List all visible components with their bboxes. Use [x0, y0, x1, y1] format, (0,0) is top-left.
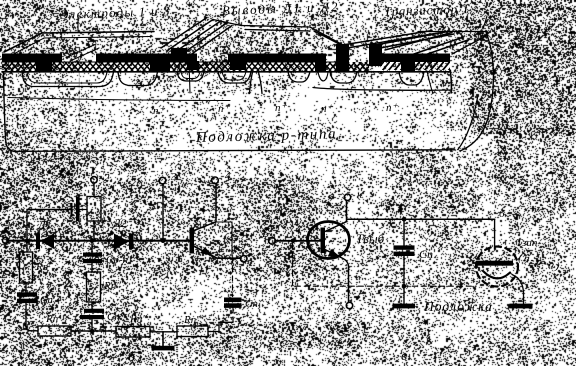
dashed column [232, 258, 234, 297]
stem 3 [162, 184, 164, 239]
capacitor Cp-n plates [83, 253, 102, 264]
ground 3 [510, 304, 533, 309]
svg-text:Подложка p-типа: Подложка p-типа [195, 126, 338, 146]
svg-text:Электроды 1 и 3: Электроды 1 и 3 [60, 3, 171, 22]
junction dot dashed [402, 284, 406, 288]
terminal 7 [346, 302, 352, 308]
peak segment [213, 20, 241, 26]
svg-text:Д2: Д2 [112, 216, 127, 230]
base wire to T2 [275, 240, 322, 242]
well 1 outer [22, 72, 114, 87]
conductor bundle right [343, 31, 469, 59]
well 3 outer [177, 72, 204, 81]
well 5 [288, 72, 310, 83]
black plugs through oxide [36, 55, 415, 72]
main wire [9, 240, 191, 242]
raised electrode [171, 48, 187, 55]
bottom rail left [26, 327, 38, 331]
diode D2 [114, 234, 134, 250]
wire to ground 3 [512, 275, 524, 304]
substrate bottom line [14, 150, 455, 152]
svg-text:Rп′: Rп′ [35, 261, 51, 273]
svg-text:7: 7 [336, 301, 342, 313]
svg-text:Cp-n: Cp-n [106, 254, 129, 266]
terminal B [269, 237, 276, 244]
loop wire to capacitor C1 [27, 210, 71, 241]
substrate left edge [4, 72, 15, 151]
well 4 inner [222, 72, 246, 81]
deep V lines [250, 70, 263, 94]
stem 4 / collector [194, 184, 216, 231]
rail jog to dashed column [208, 322, 233, 331]
svg-text:2: 2 [104, 172, 110, 184]
scan fold artifact line [103, 155, 105, 338]
svg-text:n⁺: n⁺ [153, 105, 166, 117]
transistor T2 base bar [321, 228, 326, 254]
resistor R5 horizontal [116, 327, 150, 338]
svg-text:(п-р-п): (п-р-п) [517, 251, 562, 273]
wire down from 6 [494, 219, 496, 249]
capacitor C2 plates [17, 292, 37, 303]
svg-text:Cп: Cп [419, 247, 433, 261]
svg-text:Выводы Д1 и Д2: Выводы Д1 и Д2 [222, 0, 340, 18]
svg-text:в: в [401, 349, 407, 364]
right face outer edge [460, 32, 493, 151]
terminal 5 [241, 256, 247, 262]
terminal 1 [3, 238, 9, 244]
terminal 4 [212, 177, 219, 184]
diode D1 [36, 234, 54, 250]
leader line 1 [77, 14, 79, 31]
output wire [347, 218, 495, 220]
scan fold artifact line upper [78, 60, 80, 150]
svg-text:Cп: Cп [245, 298, 258, 310]
rail segment [71, 330, 116, 332]
ground 2 [393, 304, 416, 309]
terminal K [344, 194, 350, 200]
transistor T1 base bar [190, 228, 195, 254]
rail segment [150, 331, 177, 333]
leader line 3 [483, 16, 487, 29]
T2 collector [325, 201, 347, 232]
3D roof outline left [4, 32, 154, 53]
right face inner edge [450, 70, 452, 93]
deep boundary left [8, 98, 230, 101]
well 2 [118, 72, 158, 86]
resistor R3 box [20, 252, 33, 283]
svg-text:Rп″: Rп″ [129, 313, 147, 325]
junction node x293 [291, 239, 296, 244]
right shelf [418, 31, 485, 33]
ground 1 [162, 332, 164, 346]
well 4 outer [218, 72, 251, 84]
left column stem [26, 241, 28, 252]
right roof edge [452, 36, 486, 54]
svg-text:n⁺: n⁺ [386, 102, 399, 114]
conductor bundle up-left [161, 18, 232, 57]
surface line [2, 71, 450, 73]
dashed ellipse [476, 247, 518, 287]
svg-text:4: 4 [225, 170, 231, 182]
resistor R2 box [87, 272, 101, 302]
junction node x404 [402, 217, 407, 222]
branch to dashed column [216, 222, 232, 256]
junction node x163 [161, 238, 166, 243]
svg-text:n⁺: n⁺ [218, 103, 231, 115]
deep boundary right [313, 88, 452, 91]
oxide cross hatch band [2, 62, 336, 72]
n+ labels [153, 102, 399, 117]
resistor R1 box [87, 197, 101, 222]
capacitor C3 plates [80, 309, 104, 320]
T2 emitter [325, 250, 349, 303]
capacitor Cn plates [224, 298, 242, 308]
capacitor Cn2 stem [403, 219, 405, 245]
terminal 3 [159, 177, 166, 184]
svg-text:Cп″: Cп″ [107, 311, 125, 323]
rail junction dot [90, 329, 95, 334]
capacitor Cn2 plates [394, 245, 415, 256]
post 1 [336, 44, 349, 72]
hatch band borders [2, 61, 450, 62]
post 2 [369, 44, 382, 66]
vertical contact line [189, 62, 190, 93]
well 7 [330, 72, 357, 84]
svg-text:n⁺: n⁺ [275, 102, 288, 114]
svg-text:n⁺: n⁺ [321, 103, 334, 115]
svg-text:Rп″: Rп″ [103, 280, 121, 292]
resistor R4 horizontal [38, 326, 71, 336]
arc inside ellipse [483, 271, 510, 278]
svg-text:Тзап: Тзап [516, 237, 538, 249]
well 3 inner [181, 72, 200, 79]
capacitor C1 plates [71, 197, 80, 222]
svg-text:Rп‴: Rп‴ [183, 314, 202, 326]
svg-text:Rп′: Rп′ [45, 313, 61, 325]
leader line 2 [238, 16, 240, 25]
plate inside ellipse [477, 261, 514, 266]
svg-text:Б: Б [261, 226, 269, 240]
junction node x27 [25, 238, 30, 243]
middle shelf double line [241, 26, 310, 32]
terminal 2 [91, 177, 97, 183]
electrode bar segments [2, 44, 450, 72]
well 8 right lines [427, 70, 452, 94]
gap pointer lines [66, 44, 99, 61]
transistor T2 circle [308, 222, 350, 259]
svg-text:3: 3 [170, 171, 177, 183]
svg-text:Д1: Д1 [37, 218, 52, 232]
resistor R6 horizontal [177, 326, 208, 337]
svg-text:Подложка: Подложка [423, 299, 493, 314]
svg-text:Tвыб: Tвыб [356, 231, 385, 246]
svg-text:к: к [357, 189, 363, 201]
dashed substrate link [293, 244, 477, 286]
svg-text:б: б [128, 350, 136, 365]
3D roof parallel [8, 37, 150, 58]
well 1 inner [27, 72, 107, 83]
stem to terminal 2 [93, 183, 95, 240]
wire C1 to R1 [80, 209, 87, 211]
well 8 [399, 72, 424, 86]
transistor T1 emitter [194, 246, 241, 258]
junction node x92 [90, 238, 95, 243]
svg-text:6: 6 [499, 208, 505, 220]
well 6 [318, 72, 328, 81]
svg-text:Cп′: Cп′ [40, 294, 56, 306]
down diagonals to post 1 [310, 27, 346, 48]
svg-text:Транзистор Т: Транзистор Т [384, 1, 471, 19]
svg-text:1: 1 [6, 220, 12, 232]
svg-text:5: 5 [237, 245, 243, 257]
